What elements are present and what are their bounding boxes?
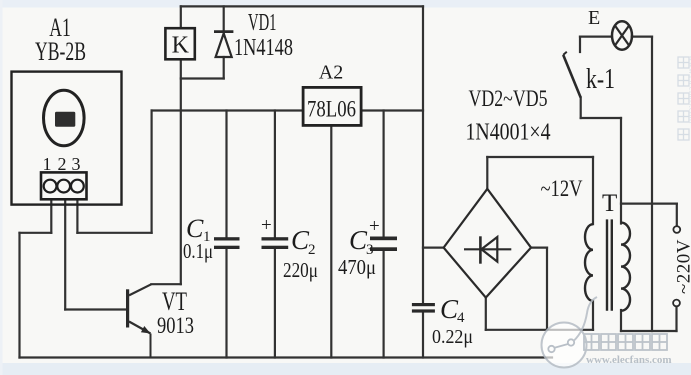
wire C3 upper lead — [383, 111, 385, 237]
wire secondary bottom lead — [592, 301, 594, 330]
transformer T primary winding — [621, 223, 630, 311]
wire VD1 to K jog — [181, 77, 224, 79]
watermark logo circle — [542, 297, 598, 368]
wire primary top lead — [620, 118, 622, 224]
terminal circle 1 — [44, 180, 57, 193]
wire 220V top terminal stub — [676, 204, 678, 226]
bridge diode triangle — [481, 237, 497, 262]
diode VD1 cathode bar — [214, 30, 233, 33]
terminal 220V bottom circle — [673, 300, 680, 307]
transformer T core line right — [611, 219, 613, 310]
regulator A2 box — [303, 87, 361, 125]
svg-text:2: 2 — [58, 154, 67, 174]
svg-text:0.1μ: 0.1μ — [183, 239, 213, 263]
wire switch top stub — [579, 37, 581, 52]
capacitor C2 top plate — [262, 237, 289, 240]
capacitor C3 top plate — [370, 237, 397, 241]
capacitor C2 bottom plate — [262, 246, 289, 249]
wire left edge vertical to bottom rail — [18, 233, 20, 358]
wire mid rail — [152, 109, 423, 111]
module A1 sensor window — [55, 112, 75, 127]
capacitor C1 bottom plate — [214, 246, 240, 249]
capacitor C4 top plate — [412, 303, 435, 306]
svg-text:470μ: 470μ — [338, 255, 376, 279]
module A1 box — [12, 72, 122, 205]
wire emitter vertical — [150, 334, 152, 358]
transistor VT base bar — [126, 289, 129, 327]
transistor VT emitter diagonal — [129, 322, 151, 334]
svg-text:~220V: ~220V — [674, 239, 691, 294]
wire terminal1 vertical — [50, 193, 52, 233]
svg-text:K: K — [172, 33, 190, 59]
wire 220V top horizontal — [621, 203, 677, 205]
svg-text:A2: A2 — [319, 62, 343, 84]
wire C1 upper lead — [225, 111, 227, 238]
svg-text:YB-2B: YB-2B — [35, 37, 86, 66]
transistor VT collector diagonal — [129, 284, 151, 295]
lamp E cross line 1 — [615, 26, 629, 46]
wire top rail — [181, 5, 423, 7]
svg-text:VD2~VD5: VD2~VD5 — [469, 86, 548, 111]
terminal strip box — [41, 172, 87, 199]
watermark right edge chinese — [678, 57, 689, 140]
wire 220V bottom terminal stub — [675, 307, 677, 332]
capacitor C1 top plate — [214, 237, 240, 240]
wire bridge top vertical — [486, 157, 488, 189]
wire secondary bottom horizontal — [486, 329, 593, 331]
wire C2 lower lead — [274, 249, 276, 358]
transformer T core line left — [606, 219, 608, 310]
wire lamp right vertical — [651, 37, 653, 331]
wire 78L06 ground pin — [330, 125, 332, 357]
transformer T secondary winding — [585, 224, 593, 301]
svg-text:3: 3 — [72, 154, 81, 174]
capacitor C4 bottom plate — [412, 309, 435, 312]
wire bridge left — [423, 247, 444, 249]
wire C1 lower lead — [225, 249, 227, 358]
svg-text:~12V: ~12V — [541, 176, 583, 201]
svg-text:T: T — [602, 190, 617, 217]
wire terminal3 horizontal — [77, 232, 151, 234]
wire switch to primary horizontal — [581, 117, 621, 119]
svg-text:1N4001×4: 1N4001×4 — [466, 120, 551, 146]
wire 12V horizontal — [487, 156, 593, 158]
wire relay K vertical (top rail through K to collector) — [180, 6, 182, 284]
svg-text:+: + — [369, 216, 380, 237]
terminal circle 3 — [71, 180, 84, 193]
wire C4 lower lead — [422, 313, 424, 358]
bridge rectifier diamond — [444, 189, 531, 298]
wire terminal3 vertical — [76, 193, 78, 233]
svg-text:1N4148: 1N4148 — [234, 35, 293, 61]
svg-text:VD1: VD1 — [248, 10, 277, 36]
capacitor C3 bottom plate — [370, 247, 397, 251]
diode VD1 triangle — [216, 33, 232, 57]
svg-text:2: 2 — [308, 242, 316, 258]
watermark chinese text — [584, 334, 667, 350]
svg-text:k-1: k-1 — [586, 64, 615, 95]
wire terminal2 vertical — [64, 193, 66, 310]
wire bottom rail — [20, 356, 553, 358]
wire VD1 cathode lead — [223, 6, 225, 33]
svg-text:78L06: 78L06 — [307, 97, 356, 122]
lamp E cross line 2 — [615, 26, 629, 46]
wire base horizontal — [65, 308, 127, 310]
wire primary bottom lead — [620, 310, 622, 331]
wire bridge right — [531, 247, 547, 249]
transistor VT emitter arrow — [141, 326, 151, 334]
wire C2 upper lead — [274, 111, 276, 238]
wire switch bottom stub — [580, 98, 582, 118]
wire bridge right vertical down — [546, 248, 548, 330]
wire VD1 anode lead — [223, 57, 225, 79]
svg-text:1: 1 — [43, 154, 52, 174]
svg-text:E: E — [588, 7, 600, 29]
lamp E circle — [612, 21, 632, 49]
wire terminal3 riser to mid rail — [151, 111, 153, 233]
wire collector horizontal — [151, 283, 180, 285]
wire right vertical from top rail to C4 — [422, 6, 424, 303]
relay K box — [165, 28, 194, 59]
terminal circle 2 — [57, 180, 70, 193]
switch k-1 blade — [563, 55, 581, 98]
svg-text:+: + — [261, 215, 272, 236]
wire C3 lower lead — [383, 251, 385, 358]
svg-text:VT: VT — [162, 287, 187, 316]
bridge diode cathode bar — [479, 236, 482, 263]
wire secondary top lead — [592, 157, 594, 224]
wire lamp left — [580, 35, 612, 37]
wire terminal1 horizontal — [20, 232, 52, 234]
wire 220V bottom horizontal — [621, 330, 677, 332]
bridge diode axis line — [464, 248, 511, 250]
svg-text:4: 4 — [457, 310, 465, 326]
svg-text:www.elecfans.com: www.elecfans.com — [687, 55, 691, 123]
svg-text:www.elecfans.com: www.elecfans.com — [586, 354, 672, 366]
wire bridge bottom vertical — [485, 298, 487, 330]
module A1 sensor ellipse — [44, 90, 85, 146]
svg-text:220μ: 220μ — [283, 258, 318, 282]
terminal 220V top circle — [673, 226, 680, 233]
wire lamp right — [632, 35, 652, 37]
svg-text:0.22μ: 0.22μ — [432, 326, 473, 348]
svg-text:9013: 9013 — [157, 313, 194, 338]
